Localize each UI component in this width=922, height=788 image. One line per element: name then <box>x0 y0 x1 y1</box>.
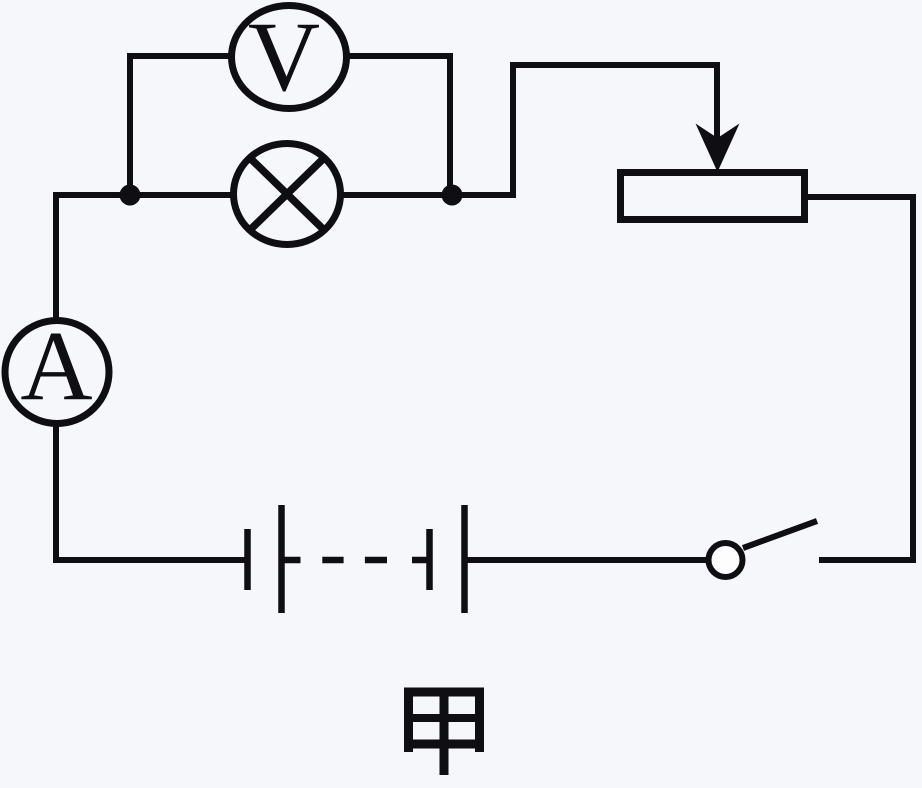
rheostat slider arrow <box>696 124 740 173</box>
battery omitted-cells dash 3 <box>365 557 387 564</box>
wire: junction J2 to rheostat slider arrow <box>452 65 717 195</box>
node junction J1 <box>120 185 141 206</box>
wire: battery right plate to switch <box>466 557 706 563</box>
svg-text:A: A <box>20 310 92 421</box>
lamp cross line 1 <box>251 159 323 229</box>
wire: ammeter bottom to battery left plate <box>56 426 245 560</box>
label 甲 left stroke <box>404 688 413 753</box>
battery cell 1 short plate (negative) <box>244 529 251 590</box>
switch S pivot circle <box>709 543 743 577</box>
node junction J2 <box>442 185 463 206</box>
battery cell 1 long plate (positive) <box>278 505 285 613</box>
wire: rheostat right terminal to bottom-right corner to switch stub <box>808 197 913 560</box>
label 甲 center stem <box>440 689 449 775</box>
label 甲 top bar <box>404 688 484 697</box>
wire: voltmeter loop right (V down to junction) <box>346 56 450 195</box>
battery omitted-cells dash stub 1 <box>284 557 301 564</box>
battery cell 2 long plate (positive) <box>461 505 468 613</box>
label 甲 bottom bar <box>404 740 484 749</box>
wire: voltmeter loop left (junction up to V) <box>130 56 232 195</box>
lamp circle <box>234 144 341 245</box>
rheostat R body <box>621 173 805 220</box>
battery omitted-cells dash stub 4 <box>412 557 430 564</box>
switch S lever (open) <box>743 521 817 548</box>
svg-text:V: V <box>248 1 320 112</box>
ammeter A circle <box>5 321 109 424</box>
label 甲 right stroke <box>475 688 484 753</box>
wire: lamp right to junction J2 <box>343 192 452 198</box>
wire: left vertical + main horizontal to lamp <box>56 195 231 318</box>
label 甲 middle bar <box>404 714 484 722</box>
battery cell 2 short plate (negative) <box>426 529 433 590</box>
voltmeter V circle <box>232 6 347 109</box>
battery omitted-cells dash 2 <box>322 557 343 564</box>
lamp cross line 2 <box>251 159 323 229</box>
